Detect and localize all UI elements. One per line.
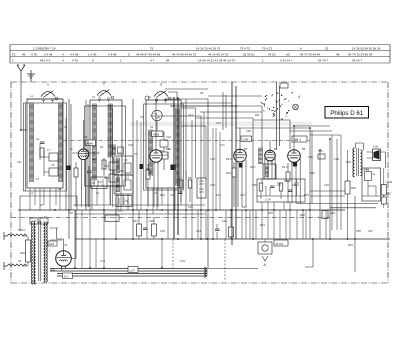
dashed drop x173 [172, 239, 174, 268]
svg-text:4 78: 4 78 [31, 53, 37, 57]
svg-text:Philips D 61: Philips D 61 [330, 110, 364, 117]
box under L3 [105, 215, 119, 222]
svg-text:3 4 46: 3 4 46 [44, 53, 53, 57]
electrolytic blob 3 [171, 165, 176, 171]
wire V5 screen h126 [294, 125, 330, 127]
tone components [362, 181, 380, 197]
RF coil box L3/L4 [90, 100, 122, 186]
tone network box [362, 168, 381, 201]
wire antenna feed [20, 82, 22, 130]
svg-text:L17: L17 [130, 268, 135, 272]
wire h120 [253, 119, 290, 121]
wire x320 [319, 150, 321, 239]
svg-text:S7: S7 [134, 152, 138, 156]
svg-text:R15: R15 [268, 211, 273, 215]
oscillator coil screen (outer) [144, 104, 184, 190]
svg-text:C38: C38 [149, 219, 154, 223]
svg-text:S7: S7 [118, 151, 122, 155]
scan artifact band [130, 122, 312, 127]
svg-text:73 4 23: 73 4 23 [262, 47, 272, 51]
AVC resistors cluster [179, 180, 183, 188]
svg-text:1: 1 [47, 83, 49, 87]
wire h205 [73, 204, 205, 206]
svg-text:25: 25 [325, 47, 329, 51]
wire x216 x220 [216, 128, 220, 210]
variable capacitor section 1 [41, 92, 55, 97]
svg-text:C42: C42 [242, 205, 247, 209]
svg-text:2: 2 [103, 82, 105, 86]
svg-text:R4: R4 [100, 145, 104, 149]
wire x137 [136, 120, 138, 210]
dashed drop x225 [224, 239, 226, 280]
voltage selector [26, 240, 31, 262]
svg-text:C56: C56 [330, 211, 335, 215]
output transformer core [357, 148, 359, 176]
svg-text:3: 3 [160, 83, 162, 87]
svg-text:1 4 40: 1 4 40 [88, 53, 97, 57]
svg-text:C40: C40 [222, 219, 227, 223]
tube V5 (output) [288, 150, 301, 163]
svg-text:4 4 94: 4 4 94 [70, 53, 79, 57]
svg-text:A5: A5 [286, 53, 290, 57]
wire x313 down [312, 239, 314, 267]
wire x332 [331, 135, 333, 230]
svg-text:R32: R32 [20, 251, 25, 255]
wire x290 [289, 120, 291, 149]
ground (earth) symbol [27, 70, 35, 82]
wire switch feeds [196, 96, 262, 118]
mains dropper resistor lower [7, 264, 27, 266]
oscillator switch wafer S1 [152, 110, 162, 120]
wire x341 [340, 135, 342, 230]
resistor R28 (bias) [345, 181, 350, 194]
svg-text:C13: C13 [188, 113, 193, 117]
electrolytic blob 2 [140, 164, 144, 169]
pilot lamp [293, 104, 299, 110]
svg-text:C12: C12 [124, 176, 129, 180]
wire h116 [150, 116, 201, 239]
wire right h203 [297, 203, 378, 205]
aerial coil box L1/L2 [27, 99, 63, 188]
decoupling resistor R22 [152, 224, 157, 236]
wire v75 bottom [74, 210, 76, 268]
HT bus [18, 209, 345, 211]
wire x192 [191, 120, 193, 239]
svg-text:5/32: 5/32 [346, 160, 352, 164]
svg-text:4.7: 4.7 [178, 176, 182, 180]
V1 cathode resistor R5 [74, 168, 78, 177]
rectifier leads [57, 228, 77, 271]
wire AGC rail [65, 118, 67, 210]
wire left rail [25, 104, 27, 192]
wire v90 bottom [89, 186, 91, 268]
wire x253 [252, 118, 254, 239]
svg-text:C37: C37 [240, 193, 245, 197]
wire x262 to switch [236, 127, 310, 129]
svg-text:R10: R10 [160, 193, 165, 197]
padder capacitor C1 [40, 142, 45, 144]
svg-text:R11: R11 [255, 113, 260, 117]
electrolytic blob 4 [239, 163, 243, 168]
svg-text:R33: R33 [348, 243, 353, 247]
svg-text:34 74 75 94 44: 34 74 75 94 44 [300, 53, 320, 57]
svg-text:C41: C41 [17, 161, 22, 164]
svg-text:C18: C18 [128, 143, 133, 147]
tube V3 (IF amp) [234, 149, 247, 162]
IF transformer can S8 [114, 175, 133, 194]
svg-text:B5: B5 [302, 147, 306, 151]
wave-change switch S4 contact cluster [261, 92, 293, 120]
wire x213 [212, 128, 214, 239]
RF coil screen (outer) [85, 106, 126, 186]
wire h196 left [20, 196, 77, 210]
wire stage3 internals [157, 121, 164, 170]
svg-text:14 36 55 54 36 56 24: 14 36 55 54 36 56 24 [352, 47, 381, 51]
svg-text:4 7: 4 7 [150, 59, 155, 63]
svg-text:44 74 94 44 34 75: 44 74 94 44 34 75 [172, 53, 197, 57]
wire x86 pair [86, 100, 88, 210]
wire IF feed pair [232, 82, 236, 245]
svg-text:C35: C35 [188, 205, 193, 209]
decoupling caps [143, 228, 148, 230]
svg-text:C1: C1 [36, 137, 40, 141]
fuse box [30, 218, 38, 224]
svg-text:R21: R21 [133, 219, 138, 223]
tube V4 (detector) [265, 150, 276, 161]
svg-text:R4 C: R4 C [282, 165, 288, 169]
component on right feed [322, 211, 328, 219]
connector label box [274, 240, 288, 246]
wire junction dots [20, 98, 356, 269]
output transformer S12 primary [353, 148, 355, 177]
wire x186 [185, 99, 187, 210]
svg-text:C9: C9 [140, 115, 144, 119]
svg-text:48: 48 [336, 53, 340, 57]
padder C11 [160, 152, 168, 159]
svg-text:C10: C10 [166, 135, 171, 139]
wire stage2 internals [104, 158, 113, 178]
wire h214 [75, 213, 205, 215]
svg-text:C36: C36 [210, 183, 215, 187]
band 210-239 vertical leads right [82, 210, 326, 268]
svg-text:C19: C19 [216, 121, 221, 125]
svg-text:R19: R19 [310, 171, 315, 175]
band 210-239 vertical leads [104, 210, 303, 268]
svg-text:54 79 7: 54 79 7 [318, 59, 328, 63]
heater line extension [207, 268, 258, 270]
svg-text:4.7: 4.7 [47, 148, 51, 152]
IF transformer can S7 [114, 156, 133, 175]
wire x262 top [261, 106, 263, 149]
svg-text:6,3: 6,3 [64, 275, 68, 279]
electrolytic blob 5 [293, 162, 297, 167]
svg-text:4.15k: 4.15k [386, 180, 393, 184]
svg-text:4.7k: 4.7k [220, 143, 226, 147]
V1 leads [72, 120, 95, 207]
svg-text:4.8: 4.8 [98, 180, 102, 184]
aerial coil screen (outer) [24, 103, 67, 191]
wire osc h92 [168, 92, 177, 99]
svg-text:C 54: C 54 [265, 198, 271, 202]
svg-text:R23: R23 [260, 223, 265, 227]
variable capacitor section 3 [154, 92, 168, 97]
wire h135 [310, 134, 341, 136]
output transformer secondary [361, 150, 363, 176]
svg-text:C41: C41 [196, 229, 201, 233]
wire speaker leads [356, 143, 386, 168]
coil L2 winding [59, 103, 63, 181]
svg-text:R25: R25 [304, 193, 309, 197]
svg-text:R13: R13 [216, 193, 221, 197]
svg-text:C53: C53 [292, 183, 297, 187]
svg-text:B2: B2 [160, 149, 164, 153]
svg-text:R26: R26 [300, 213, 305, 217]
svg-text:B1: B1 [86, 149, 90, 153]
pickup connector box [258, 242, 272, 254]
wire x208 [207, 99, 209, 268]
IF can leads down [111, 104, 129, 210]
wire x330 [329, 139, 331, 239]
svg-text:B3: B3 [244, 147, 248, 151]
svg-text:12M: 12M [243, 138, 249, 142]
tone cap C52 [365, 172, 372, 181]
svg-text:44 14 45 14 75: 44 14 45 14 75 [208, 53, 228, 57]
svg-text:R2: R2 [84, 135, 88, 139]
decoupling resistor R21 [137, 224, 142, 236]
antenna [17, 65, 25, 82]
trimmer C7 [109, 174, 118, 182]
switch label box 12M [241, 136, 252, 142]
V2 leads [148, 99, 168, 207]
svg-text:44 94 97 34 44 45: 44 94 97 34 44 45 [136, 53, 161, 57]
chassis partition (dash-dot) [11, 217, 330, 219]
svg-text:R6 C: R6 C [226, 157, 232, 161]
svg-text:AB 1: AB 1 [294, 138, 301, 142]
oscillator padder box [197, 178, 206, 198]
wire x311 pair [310, 128, 312, 239]
svg-text:F1: F1 [12, 53, 16, 57]
svg-text:75: 75 [150, 47, 154, 51]
wire v265 bottom [264, 239, 266, 242]
wire V5 grid pair [277, 82, 280, 149]
svg-text:46: 46 [22, 53, 26, 57]
svg-text:AZ1: AZ1 [49, 242, 55, 246]
wire x196 x204 [181, 108, 206, 180]
heater wiring bus [50, 267, 207, 270]
wire gang link [27, 98, 63, 100]
wire x355 down [354, 196, 356, 272]
switch label box AM4 [85, 140, 96, 146]
wire right h191 [310, 190, 345, 192]
transformer connections [31, 228, 62, 270]
wire right h196 [310, 195, 345, 197]
component box under L3 [91, 177, 107, 189]
svg-text:C50: C50 [252, 183, 257, 187]
svg-text:C4: C4 [64, 125, 68, 129]
svg-text:S6: S6 [200, 91, 204, 95]
wire right h207 [330, 207, 376, 209]
svg-text:AM4: AM4 [87, 142, 94, 146]
stage box2 leads down [92, 186, 121, 214]
detector coil winding [259, 148, 263, 164]
coil L3 winding [93, 104, 97, 180]
svg-text:4.15: 4.15 [100, 259, 106, 263]
svg-text:C15: C15 [92, 157, 97, 161]
svg-text:R9: R9 [188, 176, 192, 180]
resistor R3 [102, 160, 106, 169]
svg-text:R14: R14 [226, 171, 231, 175]
svg-text:C5: C5 [58, 187, 62, 191]
heater bus label box 2 [63, 273, 73, 279]
svg-text:4.17: 4.17 [118, 209, 124, 213]
svg-text:R8: R8 [146, 167, 150, 171]
trimmer C2 [49, 153, 58, 161]
resistor R1 [40, 148, 44, 157]
wire stage1 internals [40, 143, 58, 176]
svg-text:34 52: 34 52 [268, 53, 276, 57]
V2 cathode resistor R8 [146, 170, 150, 179]
chassis frame (dash-dot boundary) [11, 81, 388, 83]
wire oscillator bus pair [174, 97, 178, 239]
coil L4 winding [108, 104, 113, 157]
wire osc top h [165, 99, 262, 106]
detector sub-box [257, 179, 305, 202]
electrolytic blob 1 [66, 166, 71, 171]
svg-text:C30: C30 [68, 211, 73, 215]
connector box on frame [280, 83, 288, 88]
power transformer secondary winding [44, 222, 46, 282]
svg-text:C28: C28 [246, 129, 251, 133]
V1 grid capacitor C14 [87, 171, 92, 173]
wire bottom left rail [20, 210, 26, 230]
svg-text:C33: C33 [210, 157, 215, 161]
wire stage1 anode pair [69, 99, 71, 239]
svg-text:14 04 +4 21 41 34 44 14 74: 14 04 +4 21 41 34 44 14 74 [198, 59, 235, 63]
V3 leads [234, 128, 246, 207]
V3 cathode resistor R12 [232, 168, 236, 177]
cap C40 [215, 229, 220, 231]
svg-text:C20: C20 [166, 147, 171, 151]
wire x223 pair [223, 92, 226, 130]
svg-text:C9: C9 [124, 158, 128, 162]
ground bus [75, 238, 390, 240]
svg-text:R28: R28 [351, 186, 356, 190]
svg-text:461 4 3: 461 4 3 [40, 59, 50, 63]
tube V6 (rectifier) [56, 251, 72, 267]
wire h131 [290, 130, 332, 132]
speaker [373, 149, 381, 161]
svg-text:C46: C46 [324, 183, 329, 187]
heater bus label box [128, 267, 138, 273]
svg-text:1 23456789 7 14: 1 23456789 7 14 [33, 47, 56, 51]
component box under IF can [116, 196, 132, 207]
svg-text:M 4-6: M 4-6 [276, 242, 284, 246]
variable capacitor section 2 [97, 91, 111, 96]
wire v207 bottom [206, 268, 208, 276]
power transformer core [39, 221, 41, 281]
wire h267 right [305, 266, 313, 268]
coil L6 winding [149, 130, 153, 175]
rectifier label box [48, 241, 57, 246]
svg-text:C8: C8 [96, 151, 100, 155]
tube V1 (RF amp) [78, 149, 89, 160]
svg-text:C39: C39 [160, 229, 165, 233]
tube V2 (mixer) [150, 150, 162, 162]
svg-text:S13: S13 [368, 229, 373, 233]
V4 leads [265, 140, 275, 179]
IF input coil [112, 145, 116, 155]
stage box3 leads down [148, 188, 181, 214]
detector box leads [262, 202, 297, 210]
resistor R30 [381, 185, 386, 196]
svg-text:R7: R7 [40, 203, 44, 207]
svg-text:75 4 75: 75 4 75 [240, 47, 250, 51]
power transformer primary winding [34, 221, 36, 284]
svg-text:3 4 48: 3 4 48 [108, 53, 117, 57]
svg-text:6.3V: 6.3V [180, 259, 186, 263]
wire h106 long [170, 106, 236, 128]
wire h89 [165, 88, 208, 90]
svg-text:4 14 14 7: 4 14 14 7 [280, 59, 293, 63]
band switch bus (mechanical link, dash-dot) [63, 140, 310, 142]
title block table frame [10, 44, 390, 46]
svg-text:C51: C51 [284, 179, 289, 183]
coil L5 winding [176, 108, 180, 185]
mixer grid cap [145, 96, 149, 100]
res R24 [229, 227, 234, 237]
resistor R31 [381, 197, 386, 204]
svg-text:S2: S2 [18, 259, 22, 263]
detector components [259, 183, 263, 191]
svg-text:54 74 72 34 45 54: 54 74 72 34 45 54 [348, 53, 373, 57]
IF can S9 [263, 164, 276, 179]
trimmer C6 [109, 162, 118, 170]
svg-text:V6: V6 [64, 243, 68, 247]
V5 leads [288, 126, 300, 204]
svg-text:S8: S8 [120, 169, 124, 173]
switch label box AB1 [292, 136, 307, 142]
svg-text:14 34 75 44 26 75: 14 34 75 44 26 75 [196, 47, 221, 51]
svg-text:C55: C55 [356, 229, 361, 233]
mains plug [4, 232, 7, 270]
svg-text:26 33 A1: 26 33 A1 [243, 53, 255, 57]
svg-text:C52: C52 [364, 167, 369, 171]
svg-text:C48: C48 [334, 157, 339, 161]
detector box extra parts [262, 179, 299, 196]
svg-text:4.10: 4.10 [386, 192, 392, 196]
switch label box AM5 [152, 131, 164, 137]
wire rectifier HT [75, 210, 77, 259]
wire v162 bottom [161, 239, 163, 268]
svg-text:4.7k: 4.7k [318, 149, 324, 153]
padder C10 [160, 140, 168, 147]
svg-text:4: 4 [298, 95, 300, 99]
svg-text:C3: C3 [51, 163, 55, 167]
wire x337 [336, 139, 338, 230]
model label box Philips D 61 [325, 107, 369, 119]
mains dropper resistor upper [7, 234, 27, 236]
oscillator coil box L5/L6 [146, 100, 181, 188]
coil L1 winding [30, 103, 34, 181]
wire v246 bottom [245, 210, 247, 239]
trimmer C3 [49, 168, 58, 176]
svg-text:4.0k: 4.0k [373, 145, 379, 149]
svg-text:48 C: 48 C [250, 165, 256, 169]
svg-text:C34: C34 [170, 193, 175, 197]
svg-text:34 24 7: 34 24 7 [352, 59, 362, 63]
svg-text:4 70: 4 70 [72, 59, 78, 63]
stage box1 leads down [30, 188, 60, 210]
